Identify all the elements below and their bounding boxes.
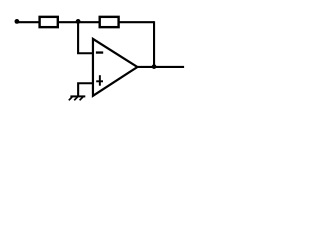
op-amp plus label [96, 80, 103, 82]
node A junction dot [76, 19, 81, 24]
wire node A down to inverting input [78, 22, 93, 53]
resistor R1 [40, 17, 58, 27]
wire node A to R2 [78, 21, 100, 23]
op-amp U1 triangle [93, 39, 137, 96]
wire op-amp output [137, 66, 184, 68]
wire R1 to node A [58, 21, 78, 23]
wire feedback down to output node [153, 21, 155, 67]
ground hatch 3 [80, 97, 84, 101]
wire input to R1 [17, 21, 40, 23]
resistor R2 [100, 17, 119, 27]
node OUT junction dot [152, 64, 157, 69]
node IN terminal dot [15, 19, 20, 24]
ground bar [70, 95, 85, 97]
wire R2 right to corner [119, 21, 154, 23]
op-amp inverting pin stub / minus label [96, 51, 103, 53]
wire non-inverting input to ground [78, 83, 93, 96]
ground hatch 1 [69, 97, 73, 101]
ground hatch 2 [74, 97, 78, 101]
